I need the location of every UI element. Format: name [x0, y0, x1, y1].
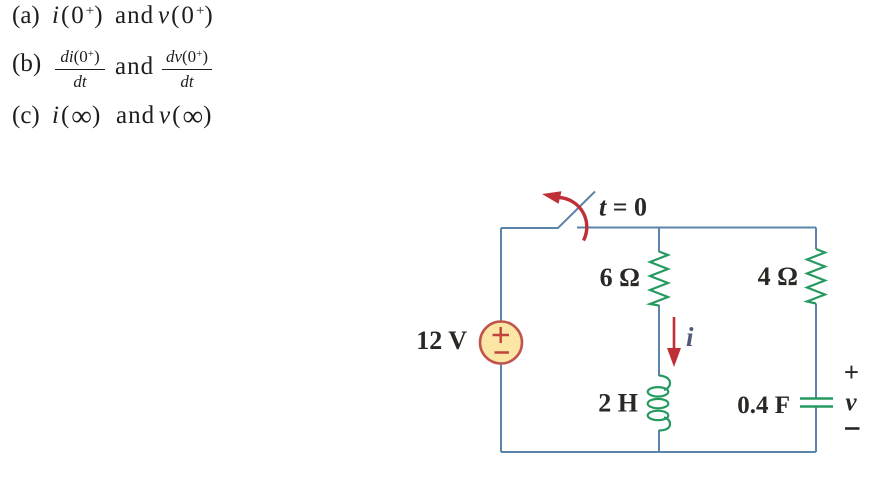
svg-text:0.4 F: 0.4 F	[737, 392, 790, 419]
svg-text:v: v	[845, 389, 857, 416]
svg-text:6 Ω: 6 Ω	[600, 263, 640, 292]
svg-text:12 V: 12 V	[416, 326, 467, 355]
svg-text:+: +	[844, 357, 859, 387]
svg-text:i: i	[686, 322, 694, 352]
svg-text:2 H: 2 H	[598, 389, 638, 418]
svg-text:4 Ω: 4 Ω	[758, 262, 798, 291]
svg-text:t = 0: t = 0	[599, 193, 647, 222]
